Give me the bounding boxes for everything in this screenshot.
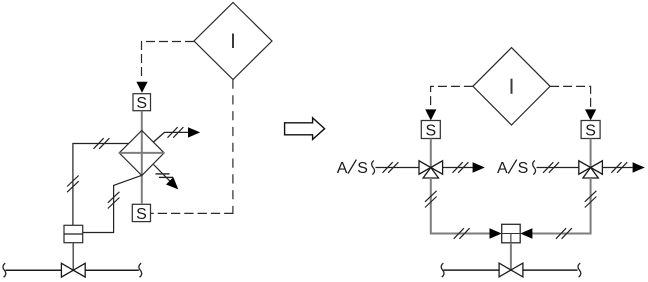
svg-text:S: S [357,160,368,177]
svg-text:S: S [136,95,147,112]
svg-text:S: S [425,122,436,139]
svg-text:A: A [497,160,508,177]
svg-text:S: S [585,122,596,139]
svg-text:S: S [518,160,529,177]
svg-text:A: A [337,160,348,177]
svg-text:S: S [136,206,147,223]
